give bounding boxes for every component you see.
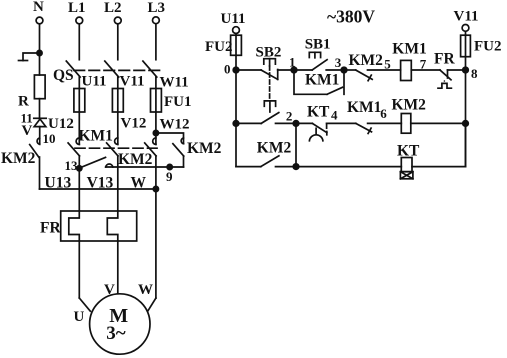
svg-text:10: 10	[43, 131, 56, 146]
svg-text:U: U	[74, 309, 85, 325]
svg-text:2: 2	[286, 109, 293, 124]
svg-text:KT: KT	[397, 143, 420, 160]
svg-text:V11: V11	[120, 74, 145, 90]
svg-text:R: R	[18, 94, 29, 110]
svg-text:KM2: KM2	[1, 150, 36, 167]
svg-text:KT: KT	[307, 104, 330, 121]
svg-text:13: 13	[65, 158, 79, 173]
svg-text:L1: L1	[68, 0, 86, 16]
svg-text:~380V: ~380V	[327, 7, 375, 27]
svg-text:N: N	[33, 0, 44, 15]
svg-text:V13: V13	[87, 175, 114, 192]
svg-text:L3: L3	[148, 0, 166, 16]
svg-text:V11: V11	[454, 9, 479, 25]
svg-text:3~: 3~	[106, 323, 126, 344]
svg-text:KM1: KM1	[392, 41, 426, 58]
svg-text:4: 4	[331, 108, 338, 123]
svg-text:FU1: FU1	[164, 94, 192, 110]
svg-text:V12: V12	[121, 116, 147, 132]
svg-text:6: 6	[380, 106, 387, 121]
svg-text:L2: L2	[104, 0, 122, 16]
svg-text:7: 7	[420, 57, 427, 72]
svg-text:W12: W12	[160, 117, 190, 133]
svg-text:KM2: KM2	[118, 151, 153, 168]
svg-text:KM1: KM1	[347, 99, 381, 116]
svg-text:W: W	[131, 175, 147, 192]
svg-text:KM1: KM1	[79, 128, 113, 145]
svg-text:U11: U11	[221, 11, 246, 27]
svg-text:FU2: FU2	[205, 39, 233, 55]
svg-text:W: W	[138, 282, 153, 298]
svg-text:8: 8	[471, 66, 478, 81]
svg-text:V: V	[104, 282, 115, 298]
svg-text:W11: W11	[160, 75, 189, 91]
svg-text:KM2: KM2	[392, 97, 427, 114]
svg-text:KM2: KM2	[187, 140, 222, 157]
svg-text:SB2: SB2	[256, 45, 282, 61]
svg-text:0: 0	[224, 62, 231, 77]
svg-text:QS: QS	[53, 67, 74, 84]
svg-text:U12: U12	[48, 116, 74, 132]
svg-text:FR: FR	[434, 51, 455, 68]
svg-text:FR: FR	[40, 220, 61, 237]
svg-text:9: 9	[166, 169, 173, 184]
svg-text:3: 3	[335, 55, 342, 70]
svg-text:KM1: KM1	[305, 72, 339, 89]
svg-text:KM2: KM2	[257, 140, 292, 157]
svg-text:V: V	[22, 123, 33, 139]
svg-text:KM2: KM2	[349, 52, 384, 69]
svg-text:U13: U13	[45, 175, 72, 192]
svg-text:SB1: SB1	[305, 37, 331, 53]
svg-text:U11: U11	[82, 74, 107, 90]
svg-text:FU2: FU2	[474, 39, 502, 55]
svg-text:1: 1	[289, 55, 296, 70]
svg-text:5: 5	[384, 57, 391, 72]
